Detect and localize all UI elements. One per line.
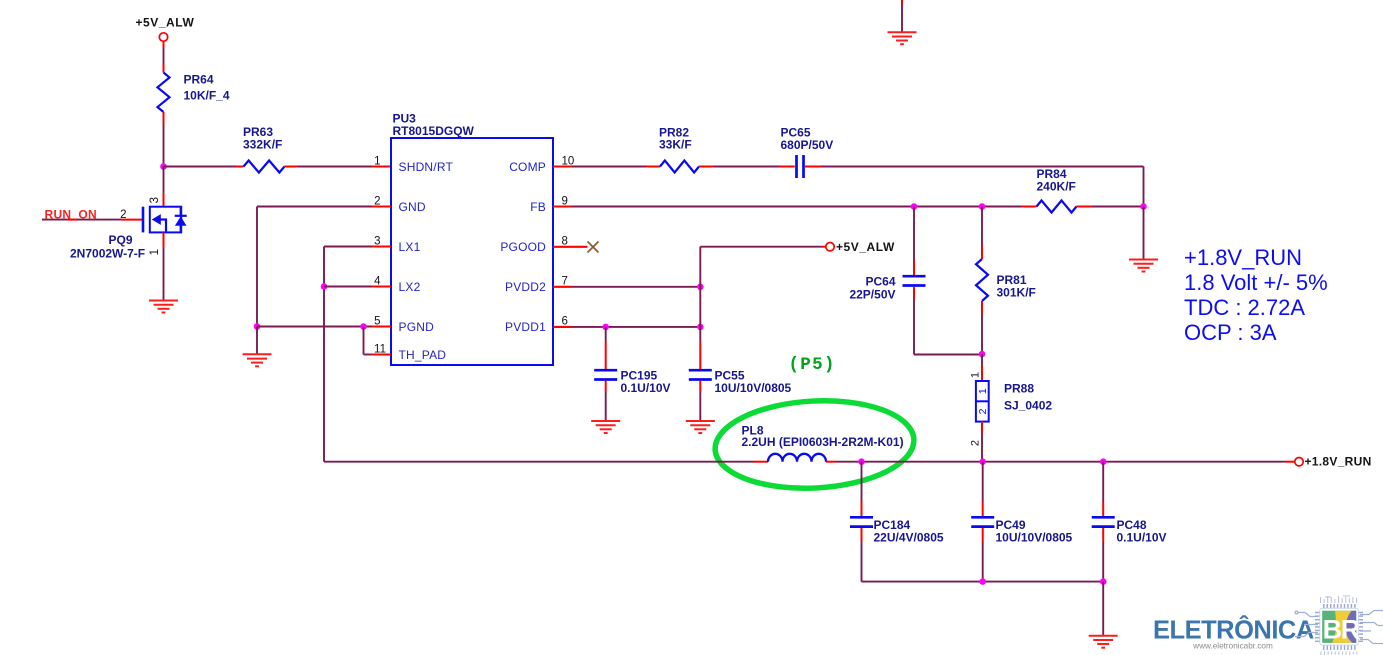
wire output rail LX to inductor PL8 (324, 461, 754, 463)
wire bottom rail (862, 581, 1104, 583)
wire PR88 pin 1 stub (981, 354, 983, 366)
svg-text:1: 1 (149, 249, 161, 255)
wire LX2 to vertical (324, 286, 372, 288)
wire +5V_ALW terminal to PR64 (163, 41, 165, 47)
ground below PR84 corner (1129, 260, 1158, 272)
ground below PC195 (591, 421, 620, 433)
svg-text:TDC : 2.72A: TDC : 2.72A (1184, 295, 1305, 320)
wire PVDD2 to +5V vertical (572, 286, 701, 288)
pin 5 stub of PU3 (PGND) (372, 325, 391, 327)
svg-text:PGOOD: PGOOD (500, 240, 546, 254)
wire GND net pin2 to left vertical (257, 206, 372, 208)
wire LX1 to left vertical (324, 246, 372, 248)
wire PC48 branch (1102, 462, 1104, 502)
svg-text:LX1: LX1 (399, 240, 421, 254)
svg-text:RT8015DGQW: RT8015DGQW (393, 124, 475, 138)
wire PC195 to ground (605, 381, 607, 393)
wire PR64 to node A junction (163, 112, 165, 124)
svg-text:+5V_ALW: +5V_ALW (136, 16, 195, 30)
wire PC55 branch (699, 327, 701, 341)
wire PVDD1 to PC195/PC55 (572, 326, 701, 328)
node +5V_ALW (mid terminal) (699, 247, 701, 287)
IC PU3 RT8015DGQW body (391, 138, 553, 365)
wire corner junction to ground (1143, 207, 1145, 260)
ground below GND net (243, 354, 272, 366)
svg-text:1: 1 (977, 388, 989, 394)
capacitor PC65 (795, 155, 798, 178)
resistor PR84 (1037, 201, 1077, 213)
svg-text:301K/F: 301K/F (997, 286, 1036, 300)
svg-text:1: 1 (970, 372, 982, 378)
svg-text:+1.8V_RUN: +1.8V_RUN (1184, 245, 1302, 270)
node +1.8V_RUN terminal (1295, 458, 1303, 466)
svg-text:6: 6 (562, 316, 568, 328)
wire PC65 to top-right corner (805, 166, 821, 168)
junction PVDD1/PC195 (602, 324, 609, 331)
wire PC49 branch (982, 462, 984, 502)
svg-text:10U/10V/0805: 10U/10V/0805 (715, 381, 792, 395)
wire PR81 branch from FB (981, 207, 983, 246)
svg-text:TH_PAD: TH_PAD (399, 348, 447, 362)
pin 4 stub of PU3 (LX2) (372, 285, 391, 287)
svg-text:10U/10V/0805: 10U/10V/0805 (996, 531, 1073, 545)
wire FB net to PR84 (572, 206, 1022, 208)
svg-text:GND: GND (399, 200, 426, 214)
svg-text:OCP : 3A: OCP : 3A (1184, 320, 1277, 345)
pin 1 stub of PU3 (SHDN/RT) (372, 165, 391, 167)
svg-text:22U/4V/0805: 22U/4V/0805 (874, 531, 944, 545)
pin 10 stub of PU3 (COMP) (553, 165, 572, 167)
green highlight ellipse around PL8 (713, 396, 916, 493)
wire node A to PR63 (164, 166, 237, 168)
pin 2 stub of PU3 (GND) (372, 205, 391, 207)
wire LX vertical down to output rail (323, 247, 325, 462)
svg-text:LX2: LX2 (399, 280, 421, 294)
wire PC184 branch (861, 462, 863, 502)
svg-text:2: 2 (374, 196, 380, 208)
svg-text:1.8 Volt +/- 5%: 1.8 Volt +/- 5% (1184, 270, 1328, 295)
jumper PR88 SJ_0402 body (976, 381, 989, 422)
junction PVDD2/+5V (697, 284, 704, 291)
wire bottom rail to ground (1102, 582, 1104, 635)
capacitor PC184 (850, 516, 873, 519)
svg-text:www.eletronicabr.com: www.eletronicabr.com (1192, 641, 1273, 650)
capacitor PC48 (1092, 516, 1115, 519)
wire node A to PQ9 drain (163, 167, 165, 194)
svg-text:BR: BR (1323, 615, 1360, 645)
wire RUN_ON to PQ9 gate (42, 219, 121, 221)
transistor PQ9 (N-MOSFET 2N7002W-7-F) (143, 207, 187, 233)
pin 9 stub of PU3 (FB) (553, 205, 572, 207)
wire +5V vertical to PC55 (699, 287, 701, 327)
junction PR81/PC64/PR88 (979, 351, 986, 358)
no-connect X on pin 8 (588, 242, 599, 253)
svg-text:PR64: PR64 (184, 73, 214, 87)
inductor PL8 (768, 454, 826, 462)
junction PVDD1/PC55 (697, 324, 704, 331)
svg-text:PC64: PC64 (865, 275, 895, 289)
svg-text:PQ9: PQ9 (109, 233, 133, 247)
resistor PR63 (244, 161, 285, 173)
svg-text:22P/50V: 22P/50V (849, 288, 895, 302)
junction pin5/pin11 branch (360, 323, 367, 330)
svg-text:332K/F: 332K/F (243, 138, 282, 152)
svg-text:3: 3 (374, 236, 380, 248)
svg-text:SJ_0402: SJ_0402 (1004, 399, 1052, 413)
svg-text:(P5): (P5) (789, 355, 836, 375)
svg-text:PVDD1: PVDD1 (505, 320, 546, 334)
wire COMP to PR82 (572, 166, 647, 168)
wire PR63 to PU3 pin 1 (285, 166, 299, 168)
svg-text:1: 1 (374, 156, 380, 168)
capacitor PC64 (903, 275, 926, 278)
node A junction dot (PR64/PR63/PQ9 drain) (160, 163, 167, 170)
svg-text:PVDD2: PVDD2 (505, 280, 546, 294)
ground top (off-sheet net) (888, 32, 917, 44)
junction FB/PC64 (911, 203, 918, 210)
ground below PQ9 (149, 301, 178, 313)
capacitor PC55 (689, 369, 712, 372)
pin 8 stub of PU3 (PGOOD) with no-connect (553, 246, 588, 248)
wire PR81 to junction (981, 301, 983, 315)
svg-text:10K/F_4: 10K/F_4 (184, 89, 230, 103)
wire PC64 to bottom junction (913, 287, 915, 300)
svg-text:0.1U/10V: 0.1U/10V (1117, 531, 1167, 545)
svg-text:2: 2 (120, 209, 126, 221)
junction FB/PR81 (979, 203, 986, 210)
wire GND net to pin 5 (257, 326, 372, 328)
pin 3 stub of PU3 (LX1) (372, 245, 391, 247)
junction rail/PC48 (1100, 458, 1107, 465)
resistor PR64 (158, 73, 170, 113)
junction bottom rail/PC48 ground (1100, 578, 1107, 585)
svg-text:+1.8V_RUN: +1.8V_RUN (1305, 455, 1372, 469)
junction rail/PC184 (858, 458, 865, 465)
svg-text:680P/50V: 680P/50V (781, 138, 834, 152)
svg-text:4: 4 (374, 276, 381, 288)
resistor PR81 (976, 259, 988, 301)
svg-text:2: 2 (970, 440, 982, 446)
svg-text:9: 9 (562, 196, 568, 208)
svg-text:5: 5 (374, 316, 380, 328)
svg-text:SHDN/RT: SHDN/RT (399, 160, 454, 174)
annotation +1.8V_RUN rail specs (1184, 245, 1328, 345)
wire PC64 branch from FB (913, 207, 915, 260)
junction rail/PC49 (979, 458, 986, 465)
wire PC195 branch (605, 327, 607, 341)
wire PR84 to corner junction (1077, 206, 1093, 208)
wire PR88 pin 2 stub (981, 422, 983, 434)
svg-text:FB: FB (530, 200, 546, 214)
junction bottom rail/PC49 (979, 578, 986, 585)
svg-text:PGND: PGND (399, 320, 435, 334)
wire PC55 to ground (699, 381, 701, 393)
svg-text:8: 8 (562, 236, 568, 248)
svg-text:+5V_ALW: +5V_ALW (836, 240, 895, 254)
svg-text:240K/F: 240K/F (1037, 180, 1076, 194)
pin 7 stub of PU3 (PVDD2) (553, 286, 572, 288)
svg-text:2N7002W-7-F: 2N7002W-7-F (70, 247, 145, 261)
svg-text:2.2UH (EPI0603H-2R2M-K01): 2.2UH (EPI0603H-2R2M-K01) (742, 435, 904, 449)
wire PR82 to PC65 (699, 166, 714, 168)
wire branch to pin 11 (363, 327, 365, 355)
svg-text:PR88: PR88 (1004, 382, 1034, 396)
wire PC184 to bottom rail (861, 528, 863, 542)
svg-text:11: 11 (374, 344, 386, 356)
svg-text:7: 7 (562, 276, 568, 288)
pin 11 stub of PU3 (TH_PAD) (372, 353, 391, 355)
wire top ground stub (901, 0, 903, 5)
svg-text:2: 2 (977, 408, 989, 414)
ground below bottom rail (1089, 636, 1118, 648)
wire PQ9 source to ground (163, 232, 165, 248)
junction LX2 (321, 283, 328, 290)
wire PC49 to bottom rail (982, 528, 984, 542)
svg-text:ELETRÔNICA: ELETRÔNICA (1153, 615, 1314, 645)
wire GND net to ground symbol (256, 327, 258, 355)
capacitor PC195 (594, 369, 617, 372)
logo BR chip icon (1295, 596, 1383, 655)
junction GND net (254, 323, 261, 330)
wire PC48 to bottom rail (1102, 528, 1104, 542)
wire PL8 to +1.8V_RUN terminal (826, 461, 836, 463)
junction COMP/FB corner (1140, 203, 1147, 210)
node +5V_ALW (top-left power terminal) (159, 33, 167, 41)
pin 6 stub of PU3 (PVDD1) (553, 326, 572, 328)
svg-text:COMP: COMP (509, 160, 546, 174)
capacitor PC49 (971, 516, 994, 519)
svg-text:33K/F: 33K/F (659, 138, 692, 152)
svg-text:3: 3 (149, 197, 161, 203)
svg-text:0.1U/10V: 0.1U/10V (621, 381, 671, 395)
resistor PR82 (660, 161, 699, 173)
ground below PC55 (686, 421, 715, 433)
